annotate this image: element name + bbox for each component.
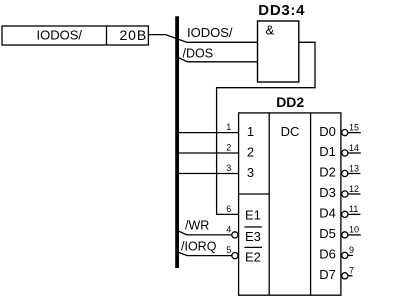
wire output D6 (pin 9) <box>348 254 353 256</box>
svg-text:13: 13 <box>349 163 359 173</box>
decoder DD2 body <box>239 113 341 295</box>
svg-text:9: 9 <box>349 245 354 255</box>
wire output D2 (pin 13) <box>348 173 361 175</box>
bus (thick vertical line) <box>175 16 179 268</box>
svg-text:5: 5 <box>226 245 231 255</box>
inversion bubble D4 <box>342 211 348 217</box>
svg-text:14: 14 <box>349 143 359 153</box>
wire input A2 (pin 3) <box>179 173 239 175</box>
svg-text:IODOS/: IODOS/ <box>37 28 83 43</box>
svg-text:&: & <box>266 23 275 38</box>
svg-text:E2: E2 <box>245 249 261 264</box>
wire output D0 (pin 15) <box>348 132 361 134</box>
bus label box IODOS/ 20B <box>2 26 148 45</box>
and-gate DD3:4 <box>258 21 299 82</box>
svg-text:7: 7 <box>349 266 354 276</box>
wire output D3 (pin 12) <box>348 193 361 195</box>
inversion bubble D7 <box>342 273 348 279</box>
svg-text:10: 10 <box>349 225 359 235</box>
inversion bubble E2 <box>232 253 238 259</box>
svg-text:D1: D1 <box>319 144 336 159</box>
svg-text:15: 15 <box>349 122 359 132</box>
wire input A1 (pin 2) <box>179 152 239 154</box>
svg-text:/IORQ: /IORQ <box>181 239 217 253</box>
svg-text:D5: D5 <box>319 226 336 241</box>
wire output D1 (pin 14) <box>348 152 361 154</box>
svg-text:20B: 20B <box>120 27 148 43</box>
wire /WR tap from bus to E3 pin 4 <box>177 230 232 235</box>
svg-text:D0: D0 <box>319 124 336 139</box>
wire output D4 (pin 11) <box>348 213 361 215</box>
svg-text:D3: D3 <box>319 185 336 200</box>
inversion bubble D1 <box>342 150 348 156</box>
wire DD3:4 output routed down to E1 pin 6 <box>217 42 315 214</box>
svg-text:2: 2 <box>247 145 254 160</box>
inversion bubble D6 <box>342 252 348 258</box>
svg-text:DD3:4: DD3:4 <box>258 2 305 19</box>
wire IODOS/ from box across bus to gate input 1 <box>148 35 257 43</box>
overline E3 <box>244 226 262 228</box>
inversion bubble D0 <box>342 130 348 136</box>
svg-text:D6: D6 <box>319 247 336 262</box>
wire output D7 (pin 7) <box>348 275 353 277</box>
wire /DOS tap from bus to gate input 2 <box>179 58 258 62</box>
svg-text:6: 6 <box>226 204 231 214</box>
svg-text:/DOS: /DOS <box>183 46 214 60</box>
svg-text:1: 1 <box>247 124 254 139</box>
svg-text:D2: D2 <box>319 165 336 180</box>
inversion bubble E3 <box>232 232 238 238</box>
svg-text:11: 11 <box>349 204 358 214</box>
overline E2 <box>244 246 262 248</box>
svg-text:12: 12 <box>349 184 359 194</box>
wire output D5 (pin 10) <box>348 234 361 236</box>
svg-text:D4: D4 <box>319 206 336 221</box>
svg-text:4: 4 <box>226 224 231 234</box>
svg-text:3: 3 <box>247 165 254 180</box>
svg-text:D7: D7 <box>319 267 336 282</box>
wire input A0 (pin 1) <box>179 132 239 134</box>
svg-text:2: 2 <box>226 143 231 153</box>
wire /IORQ tap from bus to E2 pin 5 <box>177 252 232 256</box>
svg-text:E3: E3 <box>245 229 261 244</box>
svg-text:/WR: /WR <box>185 218 209 232</box>
svg-text:DC: DC <box>281 124 300 139</box>
inversion bubble D3 <box>342 191 348 197</box>
inversion bubble D5 <box>342 232 348 238</box>
inversion bubble D2 <box>342 170 348 176</box>
svg-text:1: 1 <box>226 122 231 132</box>
svg-text:IODOS/: IODOS/ <box>187 25 233 40</box>
svg-text:3: 3 <box>226 163 231 173</box>
svg-text:DD2: DD2 <box>276 94 304 110</box>
svg-text:E1: E1 <box>245 207 261 222</box>
